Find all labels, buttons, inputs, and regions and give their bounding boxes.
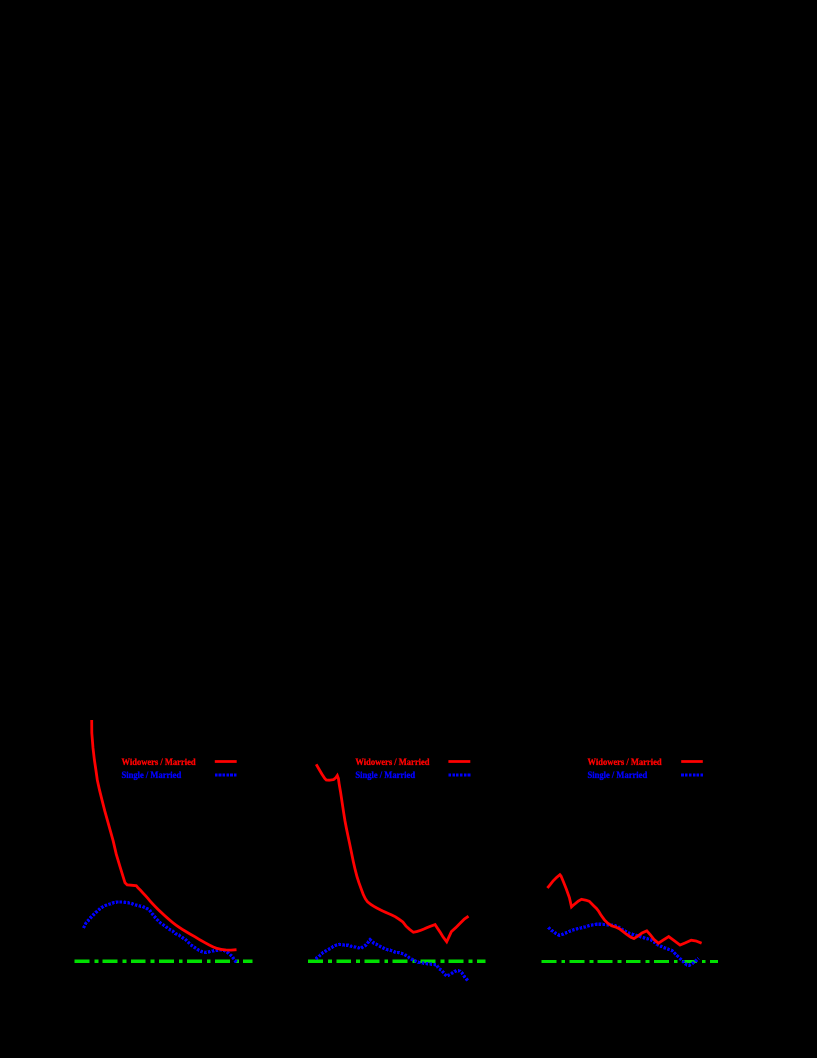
panel 2 blue dotted curve (Single/Married) (316, 940, 469, 981)
panel 2 red curve (Widowers/Married) (316, 764, 468, 942)
panel 3 red curve (Widowers/Married) (547, 875, 701, 945)
panel 1 red curve (Widowers/Married) (92, 720, 237, 950)
panel 3 green dash-dot reference line (542, 960, 719, 963)
svg-text:Single / Married: Single / Married (122, 771, 182, 781)
panel 3 blue dotted curve (Single/Married) (548, 924, 698, 965)
panel 2 green dash-dot reference line (308, 960, 485, 963)
svg-text:Single / Married: Single / Married (588, 771, 648, 781)
svg-text:Widowers / Married: Widowers / Married (588, 758, 663, 768)
svg-text:Single / Married: Single / Married (355, 771, 415, 781)
svg-text:Widowers / Married: Widowers / Married (355, 758, 430, 768)
panel 1 green dash-dot reference line (75, 960, 253, 963)
svg-text:Widowers / Married: Widowers / Married (122, 758, 197, 768)
panel 1 blue dotted curve (Single/Married) (84, 902, 237, 962)
